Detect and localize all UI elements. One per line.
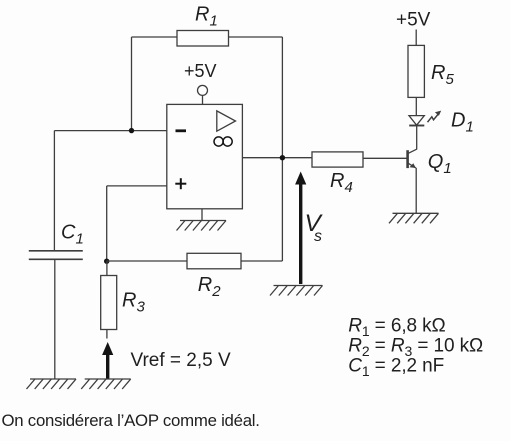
svg-text:s: s (314, 228, 322, 245)
LED D1 (409, 111, 441, 126)
wire non-inverting input (horizontal) (107, 185, 167, 187)
transistor Q1 (408, 149, 417, 168)
wire R2 left (horizontal) (107, 260, 187, 262)
resistor R2 (187, 253, 241, 268)
wire op-amp output (horizontal) (242, 157, 312, 159)
wire R1 top left (horizontal) (132, 36, 178, 38)
op-amp +5V supply pin circle (198, 85, 208, 95)
resistor R1 (177, 31, 229, 47)
wire inverting node to R1 (vertical) (131, 37, 133, 131)
capacitor C1 (29, 251, 83, 259)
op-amp U1 (AOP body) (167, 104, 243, 208)
ground (op-amp) (177, 221, 227, 231)
node non-inverting junction (104, 259, 109, 264)
wire Q1 emitter (vertical) (415, 168, 417, 214)
wire R1 to right bus (horizontal) (229, 36, 283, 38)
node inverting input junction (129, 128, 134, 133)
Vref arrow (102, 342, 113, 379)
wire R4 to Q1 base (363, 157, 408, 159)
resistor R5 (408, 45, 424, 97)
wire op-amp ground pin (201, 209, 203, 221)
wire R3 bottom stub (106, 330, 108, 339)
wire non-inverting branch (vertical) (106, 186, 108, 263)
wire right bus (vertical, R1/output/R2) (281, 37, 283, 261)
wire R2 right (horizontal) (241, 260, 282, 262)
svg-text:+5V: +5V (184, 61, 217, 81)
resistor R4 (312, 152, 363, 167)
ground (Vs) (270, 286, 323, 296)
ground (C1) (27, 379, 77, 389)
wire C1 bottom (vertical) (54, 259, 56, 379)
ground (Vref) (81, 379, 131, 389)
label Vs (305, 210, 324, 245)
wire supply pin stub (202, 95, 204, 104)
svg-text:On considérera l’AOP comme idé: On considérera l’AOP comme idéal. (2, 411, 260, 430)
node output junction (280, 155, 285, 160)
wire LED anode to R5 (415, 97, 417, 115)
wire Q1 collector (vertical) (416, 125, 418, 149)
svg-text:Vref = 2,5 V: Vref = 2,5 V (131, 350, 231, 371)
resistor R3 (101, 276, 117, 330)
wire junction to R3 (106, 261, 108, 275)
op-amp triangle symbol (217, 111, 236, 131)
op-amp infinity gain symbol (214, 137, 232, 146)
wire C1 top (vertical) (53, 131, 55, 251)
op-amp plus input sign (175, 178, 186, 189)
Vs arrow (295, 172, 306, 285)
wire inverting input (horizontal) (54, 130, 166, 132)
op-amp minus input sign (176, 129, 187, 132)
wire +5V to R5 (415, 30, 417, 46)
ground (Q1) (389, 213, 439, 223)
svg-text:+5V: +5V (396, 10, 431, 31)
